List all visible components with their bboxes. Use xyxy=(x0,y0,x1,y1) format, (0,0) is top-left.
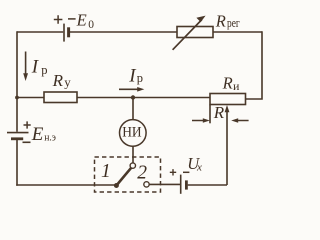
svg-text:E: E xyxy=(31,124,44,145)
svg-text:R: R xyxy=(215,11,226,30)
svg-text:2: 2 xyxy=(137,163,147,184)
svg-text:н.э: н.э xyxy=(44,133,56,144)
svg-text:НИ: НИ xyxy=(122,124,142,140)
svg-text:р: р xyxy=(137,71,143,85)
svg-text:x: x xyxy=(196,161,202,173)
svg-text:р: р xyxy=(41,63,47,77)
svg-text:R: R xyxy=(52,71,64,90)
svg-text:у: у xyxy=(64,75,71,90)
svg-text:E: E xyxy=(76,11,87,30)
svg-text:R: R xyxy=(222,74,233,93)
svg-text:1: 1 xyxy=(101,161,111,182)
svg-text:0: 0 xyxy=(88,19,94,31)
svg-text:и: и xyxy=(233,79,240,93)
svg-text:R: R xyxy=(213,103,225,122)
svg-text:рег: рег xyxy=(227,15,240,30)
